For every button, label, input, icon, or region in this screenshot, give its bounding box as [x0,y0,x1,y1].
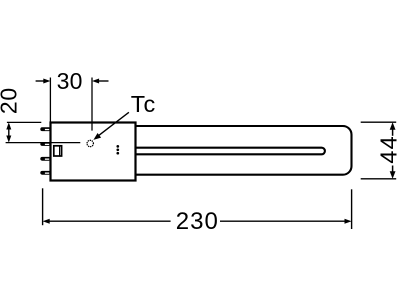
Tc leader arrow [93,112,128,140]
tube outline [135,126,352,175]
dimension 30: left arrow [36,79,51,84]
pin 4 [40,171,51,175]
dimension 20: top extension line [7,121,41,123]
pin 1 [40,127,51,131]
dimension 230: right extension line [351,189,353,229]
dimension 30: value label [57,68,83,94]
dimension 44: dimension line with arrows [390,122,396,178]
pin 2 [40,142,51,146]
svg-text:44: 44 [376,135,400,164]
dimension 44: value label (rotated) [376,135,400,164]
svg-text:Tc: Tc [131,91,157,117]
tube fold slot [136,148,325,155]
dimension 230: value label [176,208,219,235]
dimension 30: right extension line [91,78,93,131]
dimension 44: bottom extension line [361,178,397,180]
lamp base housing [51,123,136,181]
dimension 20: bottom extension line (to Tc level) [6,142,81,144]
dimension 20: value label (rotated) [0,87,21,114]
svg-text:20: 20 [0,87,21,114]
dimension 230: left extension line [42,188,44,225]
dimension 30: right arrow [92,79,109,84]
svg-text:230: 230 [176,208,219,235]
dimension 230: dimension line right segment with arrow [220,219,352,224]
three vent dots on base [116,145,119,155]
dimension 230: dimension line left segment with arrow [43,219,171,224]
svg-text:30: 30 [57,68,83,94]
base keying lug [54,145,62,156]
Tc point dotted circle [87,140,93,146]
Tc label [131,91,157,117]
dimension 30: left extension line [49,78,51,123]
pin 3 [40,157,51,161]
dimension 44: top extension line [361,121,397,123]
dimension 20: dimension line with arrows [6,122,11,142]
